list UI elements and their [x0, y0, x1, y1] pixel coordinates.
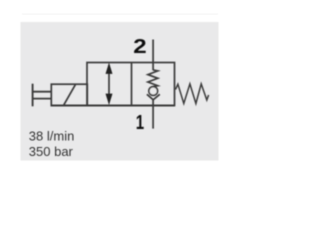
svg-text:2: 2 — [133, 35, 146, 58]
svg-text:350 bar: 350 bar — [29, 144, 74, 159]
svg-text:1: 1 — [136, 111, 144, 134]
svg-text:38 l/min: 38 l/min — [29, 129, 75, 144]
